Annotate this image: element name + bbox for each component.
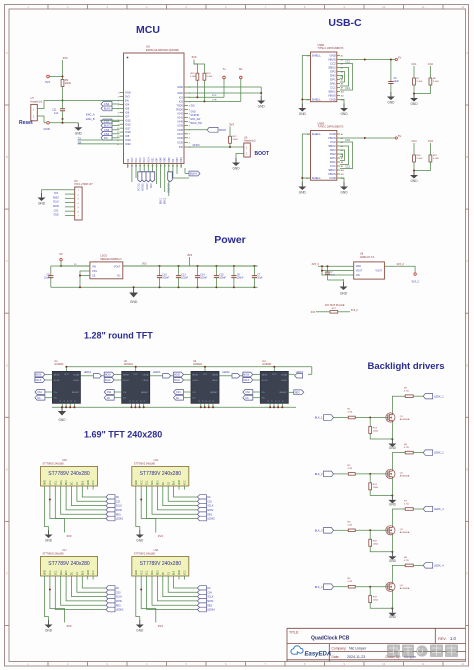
svg-text:SDA: SDA <box>151 570 154 575</box>
svg-text:LEDK2: LEDK2 <box>207 518 215 521</box>
node GND pin <box>47 122 50 125</box>
node LEDK3 port <box>106 607 115 612</box>
svg-text:1.0: 1.0 <box>450 636 456 641</box>
wire cap to gnd <box>44 122 47 124</box>
svg-text:GND: GND <box>356 265 362 268</box>
svg-text:CS1: CS1 <box>116 500 121 503</box>
node CS2 port <box>101 102 112 107</box>
svg-text:IO45: IO45 <box>165 157 167 163</box>
svg-text:LEDK_2: LEDK_2 <box>434 451 444 455</box>
wire SCLK route <box>72 490 107 506</box>
svg-text:MOSI: MOSI <box>54 375 60 377</box>
svg-text:LEDA: LEDA <box>143 374 149 377</box>
svg-text:GND: GND <box>387 101 395 105</box>
svg-text:5.1kΩ: 5.1kΩ <box>417 81 423 83</box>
svg-text:DC: DC <box>163 571 165 575</box>
svg-text:10kΩ: 10kΩ <box>373 431 379 433</box>
resistor R13 10k <box>369 418 371 424</box>
resistor R20 5.1k <box>203 69 205 73</box>
svg-text:VSS: VSS <box>92 270 97 273</box>
ground Q2 <box>391 495 393 500</box>
svg-text:3V3: 3V3 <box>311 311 316 314</box>
svg-text:CC4: CC4 <box>428 140 434 143</box>
svg-text:4: 4 <box>118 104 119 106</box>
ground module <box>48 530 50 535</box>
svg-text:IO8: IO8 <box>125 134 130 138</box>
wire module gnd <box>136 490 140 527</box>
wire to LEDK_4 <box>415 564 423 566</box>
wire DC route <box>174 580 198 589</box>
ground module <box>48 620 50 625</box>
svg-text:Company:: Company: <box>332 646 347 650</box>
svg-text:GND: GND <box>329 98 335 102</box>
wire RES route <box>61 580 106 606</box>
wire BLK_1 to R1 <box>334 417 347 419</box>
wire RES route <box>61 490 106 515</box>
node CS4 port <box>101 131 112 136</box>
svg-text:DC: DC <box>54 398 58 400</box>
node DC port U2 <box>104 395 114 400</box>
wire IO0 to boot header <box>188 146 244 148</box>
svg-text:CS: CS <box>192 392 196 394</box>
svg-text:CC2: CC2 <box>428 63 434 66</box>
svg-text:A8: A8 <box>341 161 343 164</box>
svg-text:GND: GND <box>45 539 53 543</box>
svg-text:1: 1 <box>118 93 119 95</box>
svg-text:BLK4: BLK4 <box>190 172 197 176</box>
resistor R7 5.1k <box>413 66 415 74</box>
wire SCLK route <box>163 580 198 597</box>
svg-text:ST7789V2 240x280: ST7789V2 240x280 <box>43 552 65 555</box>
svg-text:AMS1117-3.3: AMS1117-3.3 <box>360 256 375 259</box>
svg-text:CS: CS <box>168 481 170 485</box>
ground module <box>139 620 141 625</box>
wire pulldown to source <box>370 549 392 552</box>
svg-text:IO36: IO36 <box>177 136 183 140</box>
wire dp dn <box>340 72 345 83</box>
capacitor C8 100nF <box>233 265 235 267</box>
svg-text:GC9A01: GC9A01 <box>193 363 203 366</box>
node SCLK port U3 <box>174 378 184 383</box>
node CS3 port <box>106 590 115 595</box>
wire CS3 route <box>77 580 106 593</box>
svg-text:IO35: IO35 <box>177 141 183 145</box>
svg-text:BLK1: BLK1 <box>104 107 111 111</box>
svg-text:3V3: 3V3 <box>54 193 59 195</box>
svg-text:VIN: VIN <box>356 274 360 277</box>
wire LDO in <box>61 265 90 267</box>
svg-text:CS2: CS2 <box>104 102 110 106</box>
node MOSI port U1 <box>35 372 45 377</box>
ground reset <box>77 123 79 128</box>
svg-text:A8: A8 <box>341 82 343 85</box>
svg-text:DC: DC <box>104 136 108 140</box>
svg-text:3V3: 3V3 <box>192 55 197 59</box>
wire R7 R8 join <box>414 89 430 94</box>
svg-text:GND: GND <box>410 102 418 106</box>
svg-text:3V3: 3V3 <box>63 56 68 60</box>
svg-text:GND: GND <box>389 615 397 619</box>
wire LDO vss ce <box>80 271 90 287</box>
node SCLK port <box>106 503 115 508</box>
svg-text:MOSI: MOSI <box>192 375 198 377</box>
wire vcc drop U2 <box>135 367 137 372</box>
node DC port <box>197 495 206 500</box>
transistor Q1 AO3400A <box>386 413 395 422</box>
node DC port <box>197 586 206 591</box>
svg-text:EN: EN <box>125 99 129 103</box>
svg-text:LEDK_1: LEDK_1 <box>434 394 444 398</box>
svg-text:GND: GND <box>136 629 144 633</box>
svg-text:A9: A9 <box>341 165 343 168</box>
ground tft <box>61 406 63 408</box>
wire SCLK route <box>72 580 107 597</box>
svg-text:Backlight drivers: Backlight drivers <box>367 361 444 372</box>
svg-text:PIN 1.27MM 1X7: PIN 1.27MM 1X7 <box>75 183 94 186</box>
wire MOSI route <box>66 580 106 601</box>
svg-text:2024-11-23: 2024-11-23 <box>347 655 365 659</box>
svg-text:SCLK: SCLK <box>262 380 268 382</box>
svg-text:VCC: VCC <box>93 480 95 485</box>
svg-text:GND: GND <box>232 167 240 171</box>
svg-text:DC: DC <box>245 398 249 400</box>
svg-text:5V: 5V <box>398 134 401 138</box>
svg-text:VOUT: VOUT <box>114 266 121 269</box>
svg-text:GND: GND <box>88 570 90 575</box>
svg-text:GND: GND <box>136 480 138 485</box>
svg-text:DC: DC <box>72 571 74 575</box>
wire MCU left pins <box>120 92 124 94</box>
svg-text:5.1kΩ: 5.1kΩ <box>433 81 439 83</box>
svg-text:DO NOT PLACE: DO NOT PLACE <box>325 303 345 307</box>
svg-text:GND: GND <box>58 418 66 422</box>
wire gate <box>357 529 387 531</box>
capacitor C4 10uF <box>327 266 329 272</box>
svg-text:IO42: IO42 <box>177 112 183 116</box>
svg-text:SCLK2: SCLK2 <box>138 183 141 191</box>
EasyEDA logo <box>291 646 303 654</box>
svg-text:GND: GND <box>299 191 307 195</box>
svg-text:ESP32-S3-WROOM-1(N16R8): ESP32-S3-WROOM-1(N16R8) <box>146 49 179 52</box>
svg-text:GND: GND <box>340 191 348 195</box>
svg-text:B: B <box>466 155 468 159</box>
svg-text:IO47: IO47 <box>157 157 159 163</box>
svg-text:MOSI: MOSI <box>53 206 59 208</box>
wire tft bottom rail <box>52 406 296 408</box>
wire RXD0 <box>188 100 241 102</box>
transistor Q4 AO3400A <box>386 582 395 591</box>
svg-text:GND: GND <box>340 112 348 116</box>
wire CS4 route <box>168 580 197 593</box>
svg-text:CC3: CC3 <box>411 140 417 143</box>
wire U8 gnd <box>328 279 344 281</box>
svg-text:10uF: 10uF <box>257 277 263 280</box>
svg-text:SCL: SCL <box>147 480 149 485</box>
capacitor C7 10uF <box>253 265 255 267</box>
wire pulldown to source <box>370 493 392 496</box>
capacitor C9 10uF <box>50 266 52 276</box>
node SCLK port <box>197 594 206 599</box>
capacitor C11 1uF <box>62 101 64 109</box>
wire usb pins <box>337 133 340 135</box>
svg-text:RES: RES <box>66 480 68 485</box>
svg-text:2: 2 <box>118 96 119 98</box>
wire drain up <box>392 453 403 470</box>
svg-text:DC: DC <box>163 481 165 485</box>
svg-text:SDA: SDA <box>151 480 154 485</box>
svg-text:GND: GND <box>389 446 397 450</box>
svg-text:A4: A4 <box>341 145 343 148</box>
svg-text:DC: DC <box>123 398 127 400</box>
node 3V3 module <box>141 580 156 623</box>
node MOSI port <box>106 599 115 604</box>
svg-text:RES2: RES2 <box>146 183 149 190</box>
svg-text:GND: GND <box>125 91 131 95</box>
wire LEDK1 route <box>55 490 106 519</box>
svg-text:100nF: 100nF <box>181 277 188 280</box>
svg-text:MOSI2: MOSI2 <box>142 183 145 191</box>
svg-text:VIN: VIN <box>92 265 96 268</box>
svg-text:GND: GND <box>258 105 266 109</box>
svg-text:LEDK: LEDK <box>143 380 149 382</box>
svg-text:A12: A12 <box>341 98 344 101</box>
svg-text:AO3400A: AO3400A <box>400 474 410 477</box>
svg-text:LEDK_3: LEDK_3 <box>434 507 444 511</box>
wire MCU right pins <box>184 86 188 88</box>
node RES port <box>197 512 206 517</box>
watermark <box>387 645 458 658</box>
svg-text:100nF: 100nF <box>219 277 226 280</box>
wire U7 pin2 <box>37 116 44 123</box>
svg-text:SCLK: SCLK <box>35 380 41 382</box>
svg-text:A7: A7 <box>341 78 343 81</box>
svg-text:IO13: IO13 <box>144 157 146 163</box>
svg-text:RESET: RESET <box>280 392 288 394</box>
ground module <box>139 530 141 535</box>
resistor R14 10k <box>369 474 371 480</box>
svg-text:100nF: 100nF <box>162 277 169 280</box>
svg-text:SCLK: SCLK <box>116 505 123 508</box>
svg-text:RTS: RTS <box>212 95 217 97</box>
svg-text:VCC: VCC <box>133 374 138 376</box>
svg-text:VCC: VCC <box>141 570 143 575</box>
svg-text:10uF: 10uF <box>394 80 400 83</box>
node 3V3_2 pin <box>414 273 416 275</box>
svg-text:GND: GND <box>329 176 335 180</box>
ground Q3 <box>391 552 393 557</box>
svg-text:MOSI: MOSI <box>123 375 129 377</box>
svg-text:4.7Ω: 4.7Ω <box>348 525 353 527</box>
ground power rail <box>133 286 135 288</box>
wire 5V down <box>60 261 62 266</box>
svg-text:D: D <box>466 363 468 367</box>
node CS1 port <box>35 390 45 395</box>
svg-text:SHELL: SHELL <box>312 132 322 136</box>
svg-text:4.7Ω: 4.7Ω <box>404 560 409 562</box>
svg-text:IO41: IO41 <box>177 116 183 120</box>
svg-text:VCC: VCC <box>185 570 187 575</box>
svg-text:GND: GND <box>88 480 90 485</box>
svg-text:GND: GND <box>177 85 183 89</box>
svg-text:DC: DC <box>107 398 111 400</box>
svg-text:IO10: IO10 <box>132 157 134 163</box>
node SCLK port <box>197 503 206 508</box>
wire drain up <box>392 565 403 582</box>
node CC1 wire <box>340 68 349 87</box>
node CS1 port <box>101 119 112 124</box>
node MOSI port <box>197 599 206 604</box>
svg-text:A5: A5 <box>341 149 343 152</box>
svg-text:IO16: IO16 <box>125 122 131 126</box>
svg-text:RES: RES <box>158 480 160 485</box>
wire R9 to EN <box>62 89 64 101</box>
wire DC route <box>82 490 106 498</box>
wire drain up <box>392 396 403 413</box>
node CS2 port <box>197 499 206 504</box>
svg-text:3V3_2: 3V3_2 <box>397 263 405 266</box>
wire MOSI route <box>157 580 197 601</box>
wire TXD0 <box>188 96 224 98</box>
svg-text:GND: GND <box>38 202 46 206</box>
svg-text:GND: GND <box>389 502 397 506</box>
svg-text:4.7Ω: 4.7Ω <box>348 412 353 414</box>
svg-text:GND: GND <box>45 570 47 575</box>
svg-text:SCL: SCL <box>147 570 149 575</box>
svg-text:A2: A2 <box>341 58 343 61</box>
svg-text:GC9A01: GC9A01 <box>54 363 64 366</box>
svg-text:IO5: IO5 <box>125 107 130 111</box>
svg-text:D: D <box>6 363 8 367</box>
svg-text:SCLK: SCLK <box>207 596 214 599</box>
svg-text:IO12: IO12 <box>140 157 142 163</box>
svg-text:BLK: BLK <box>82 570 84 575</box>
svg-text:GND: GND <box>75 131 83 135</box>
svg-text:VCC: VCC <box>203 374 208 376</box>
svg-text:NC: NC <box>117 274 121 277</box>
svg-text:EasyEDA: EasyEDA <box>305 651 332 657</box>
svg-text:AO3400A: AO3400A <box>400 418 410 421</box>
svg-text:Rx: Rx <box>239 67 243 71</box>
svg-text:6: 6 <box>118 112 119 114</box>
svg-text:E: E <box>466 467 468 471</box>
resistor R16 10k <box>369 587 371 593</box>
svg-text:BLK: BLK <box>174 570 176 575</box>
wire boot pin2 to gnd <box>236 154 244 159</box>
svg-text:RESET: RESET <box>72 392 80 394</box>
svg-text:IO40: IO40 <box>177 120 183 124</box>
ground U8 <box>343 282 345 287</box>
svg-text:A10: A10 <box>341 169 344 172</box>
svg-text:4.7Ω: 4.7Ω <box>348 468 353 470</box>
node CS4 port <box>197 590 206 595</box>
svg-text:GND: GND <box>45 480 47 485</box>
node CC3 wire <box>340 146 349 165</box>
svg-text:SDA: SDA <box>60 570 63 575</box>
wire tft top rail <box>66 366 311 368</box>
svg-text:RES: RES <box>116 604 121 607</box>
svg-text:RES: RES <box>207 604 212 607</box>
svg-text:GND: GND <box>45 629 53 633</box>
node BLK3 port <box>101 123 112 128</box>
wire gate <box>357 586 387 588</box>
svg-text:ENC2: ENC2 <box>165 197 167 204</box>
svg-text:SCL: SCL <box>55 570 57 575</box>
svg-text:4: 4 <box>189 134 190 136</box>
svg-text:A: A <box>6 51 8 55</box>
svg-text:SHELL: SHELL <box>312 98 322 102</box>
node SCLK port U2 <box>104 378 114 383</box>
svg-text:GND: GND <box>179 570 181 575</box>
node LEDK1 port <box>106 516 115 521</box>
svg-text:4: 4 <box>189 138 190 140</box>
node BLK1 port <box>101 106 112 111</box>
svg-text:4.7Ω: 4.7Ω <box>404 504 409 506</box>
svg-text:TYPE-C 16PIN 2MD073: TYPE-C 16PIN 2MD073 <box>318 126 344 129</box>
svg-text:3V3_2: 3V3_2 <box>411 280 419 284</box>
svg-text:B: B <box>6 155 8 159</box>
svg-text:C: C <box>466 259 468 263</box>
node CS4 port <box>243 390 253 395</box>
svg-text:SCLK: SCLK <box>53 202 59 204</box>
wire gate <box>357 473 387 475</box>
svg-text:RES: RES <box>66 570 68 575</box>
svg-text:IO48: IO48 <box>161 157 163 163</box>
svg-text:IO38: IO38 <box>177 128 183 132</box>
svg-text:3V3: 3V3 <box>158 534 163 538</box>
wire gnd pin <box>340 100 344 104</box>
capacitor C10 100nF <box>159 265 161 267</box>
svg-text:CC4: CC4 <box>345 139 350 142</box>
svg-text:3V3: 3V3 <box>142 263 147 266</box>
wire source down <box>391 535 393 552</box>
node MOSI port U2 <box>104 372 114 377</box>
ground mcu right <box>260 96 262 101</box>
wire R26 R27 join <box>414 166 430 171</box>
svg-text:CS: CS <box>77 481 79 485</box>
wire CS1 route <box>77 490 106 502</box>
node LEDK_1 port <box>423 394 433 399</box>
svg-text:REV:: REV: <box>438 637 446 641</box>
svg-text:BLK: BLK <box>174 480 176 485</box>
wire BLK_3 to R3 <box>334 529 347 531</box>
node LEDK_3 port <box>423 506 433 511</box>
ground usb right <box>343 182 345 187</box>
svg-text:5.1kΩ: 5.1kΩ <box>207 76 213 78</box>
wire DC route <box>174 490 198 498</box>
svg-text:100nF: 100nF <box>237 277 244 280</box>
svg-text:5V: 5V <box>398 56 401 60</box>
svg-text:QuadClock PCB: QuadClock PCB <box>311 636 350 642</box>
svg-text:GND: GND <box>299 112 307 116</box>
svg-text:IO44: IO44 <box>181 157 183 163</box>
svg-text:DC: DC <box>37 398 41 400</box>
wire VBUS to 5V <box>340 137 395 139</box>
ground R7R8 <box>413 94 415 99</box>
svg-text:100nF: 100nF <box>200 277 207 280</box>
svg-text:4.7Ω: 4.7Ω <box>404 447 409 449</box>
svg-text:BOOT: BOOT <box>255 151 269 157</box>
wire U8 in <box>318 265 354 267</box>
svg-text:SCLK: SCLK <box>192 380 198 382</box>
wire gnd pin <box>340 178 344 182</box>
svg-text:SCL: SCL <box>55 480 57 485</box>
svg-text:CS2: CS2 <box>107 392 112 394</box>
svg-text:IO2: IO2 <box>179 100 184 104</box>
node LEDK_2 port <box>423 450 433 455</box>
svg-text:IO39: IO39 <box>177 124 183 128</box>
svg-text:VOUT: VOUT <box>356 270 363 273</box>
svg-text:10kΩ: 10kΩ <box>65 82 71 85</box>
